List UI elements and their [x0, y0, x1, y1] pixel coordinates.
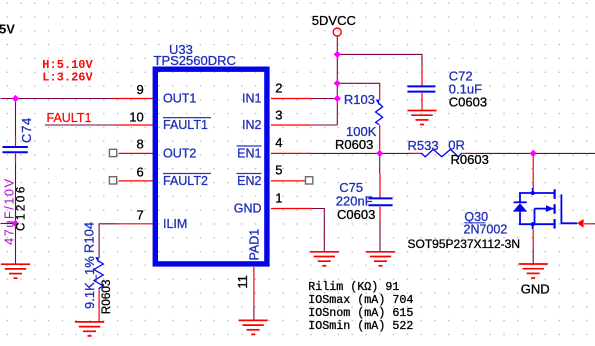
svg-text:L:3.26V: L:3.26V [42, 71, 93, 85]
svg-text:4: 4 [275, 135, 282, 150]
svg-text:5: 5 [275, 163, 282, 178]
svg-text:PAD1: PAD1 [247, 229, 261, 261]
svg-text:R0603: R0603 [451, 152, 489, 167]
svg-text:R0603: R0603 [99, 279, 113, 314]
svg-text:11: 11 [235, 275, 250, 289]
svg-text:R533: R533 [408, 138, 439, 153]
svg-text:GND: GND [521, 281, 550, 296]
svg-text:SOT95P237X112-3N: SOT95P237X112-3N [408, 237, 521, 251]
svg-text:IN1: IN1 [242, 92, 262, 106]
svg-text:C1206: C1206 [16, 184, 28, 231]
svg-text:47uF/10V: 47uF/10V [2, 177, 17, 245]
svg-text:6: 6 [136, 164, 143, 179]
svg-text:C0603: C0603 [449, 95, 487, 110]
svg-text:R103: R103 [344, 92, 375, 107]
svg-text:C74: C74 [19, 117, 34, 143]
svg-text:FAULT1: FAULT1 [47, 111, 92, 125]
svg-text:FAULT1: FAULT1 [163, 118, 208, 132]
svg-text:IOSmin (mA) 522: IOSmin (mA) 522 [308, 319, 413, 333]
svg-text:OUT2: OUT2 [163, 147, 196, 161]
svg-text:10: 10 [129, 109, 143, 124]
svg-text:2N7002: 2N7002 [464, 223, 508, 237]
svg-text:R104: R104 [82, 222, 97, 253]
svg-text:Rilim (KΩ) 91: Rilim (KΩ) 91 [308, 280, 399, 294]
svg-text:0R: 0R [448, 137, 465, 152]
svg-text:5V: 5V [0, 22, 15, 37]
svg-text:C0603: C0603 [337, 207, 375, 222]
svg-text:5DVCC: 5DVCC [312, 13, 356, 28]
svg-text:TPS2560DRC: TPS2560DRC [154, 53, 236, 68]
svg-text:GND: GND [234, 202, 262, 216]
svg-text:R0603: R0603 [335, 137, 373, 152]
svg-text:ILIM: ILIM [163, 217, 187, 231]
svg-text:IOSmax (mA) 704: IOSmax (mA) 704 [308, 293, 413, 307]
svg-text:3: 3 [275, 108, 282, 123]
svg-text:9.1K_1%: 9.1K_1% [82, 256, 97, 309]
svg-text:2: 2 [275, 81, 282, 96]
svg-text:9: 9 [136, 82, 143, 97]
svg-text:7: 7 [136, 208, 143, 223]
svg-text:EN2: EN2 [237, 174, 261, 188]
svg-text:EN1: EN1 [237, 147, 261, 161]
svg-text:IN2: IN2 [242, 118, 262, 132]
svg-text:8: 8 [136, 136, 143, 151]
svg-text:IOSnom (mA) 615: IOSnom (mA) 615 [308, 306, 413, 320]
svg-text:1: 1 [275, 191, 282, 206]
svg-text:OUT1: OUT1 [163, 92, 196, 106]
svg-text:FAULT2: FAULT2 [163, 174, 208, 188]
